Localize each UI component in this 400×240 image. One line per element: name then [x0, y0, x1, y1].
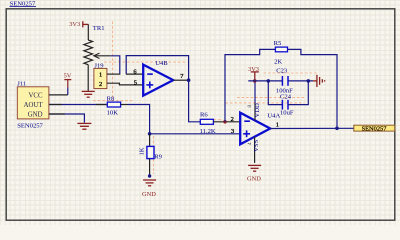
trimmer TR1: [84, 25, 111, 65]
ground (TR1): [82, 91, 95, 97]
wire U4B pin6: [126, 73, 143, 75]
wire 3V3 rail: [248, 80, 282, 82]
svg-text:GND: GND: [247, 176, 261, 183]
wire AOUT to R8: [49, 104, 107, 106]
connector J19: [94, 62, 107, 88]
power port 3V3 (U4A): [248, 66, 259, 79]
junction rail right: [307, 79, 311, 83]
svg-text:VCC: VCC: [29, 92, 43, 99]
wire TR1 wiper to J19 pin1: [111, 56, 120, 74]
svg-text:TR1: TR1: [93, 25, 105, 32]
svg-text:GND: GND: [28, 111, 43, 118]
junction U4B output: [187, 78, 191, 82]
ground (capacitor rail, sideways): [313, 75, 325, 87]
wire U4B output to R6: [189, 80, 201, 122]
port SEN0257: [354, 125, 395, 132]
svg-text:GND: GND: [142, 191, 156, 198]
wire U4B feedback loop: [126, 56, 188, 81]
svg-text:U4A: U4A: [267, 112, 280, 119]
wire R8 to node: [121, 104, 128, 106]
svg-text:R6: R6: [200, 111, 208, 118]
svg-text:2: 2: [231, 116, 234, 123]
svg-text:R5: R5: [274, 40, 282, 47]
connector J11: [17, 81, 49, 130]
pin 4 VSS of U4A: [247, 137, 260, 163]
svg-text:U4B: U4B: [155, 60, 168, 67]
wire R9 to ground: [149, 159, 151, 176]
ground (R9): [142, 180, 156, 198]
wire J19 pin1 stub: [107, 73, 120, 75]
wire U4A feedback to R5: [225, 49, 275, 121]
svg-text:3: 3: [231, 128, 234, 135]
resistor R9: [139, 134, 163, 161]
wire 3V3 to TR1: [87, 24, 89, 40]
op-amp U4B: [133, 60, 184, 96]
capacitor C23: [276, 68, 293, 95]
junction node R8/R9/pin3: [148, 132, 152, 136]
svg-text:AOUT: AOUT: [24, 102, 44, 109]
wire VCC to 5V: [49, 94, 68, 96]
svg-text:1: 1: [99, 72, 102, 79]
svg-text:5V: 5V: [64, 73, 72, 80]
power port 3V3 (TR1): [69, 21, 88, 28]
capacitor C24: [268, 81, 308, 117]
svg-text:VSS: VSS: [253, 139, 260, 151]
orange blanket dashed lines: [93, 22, 317, 175]
svg-text:1K: 1K: [139, 147, 146, 155]
svg-text:6: 6: [133, 69, 136, 76]
svg-text:1: 1: [276, 122, 279, 129]
svg-text:C24: C24: [280, 93, 292, 100]
junction R9 ground: [148, 174, 151, 177]
svg-text:SEN0257: SEN0257: [17, 123, 43, 130]
wire 3V3 stem: [254, 79, 256, 81]
junction node U4A pin2: [223, 120, 227, 124]
svg-text:8: 8: [247, 105, 253, 108]
wire U4A pin3: [150, 133, 241, 135]
wire U4B pin7 output: [173, 79, 188, 81]
ground (J11): [77, 123, 91, 129]
svg-text:C23: C23: [276, 68, 288, 75]
wire R5 to output node: [288, 49, 338, 128]
junction 3V3/VDD: [253, 79, 257, 83]
svg-text:R9: R9: [154, 154, 162, 161]
power port 5V: [64, 73, 72, 88]
wire R6 to U4A pin2: [213, 121, 240, 123]
svg-text:10K: 10K: [107, 109, 119, 116]
resistor R6: [200, 111, 216, 134]
svg-text:VDD: VDD: [254, 103, 261, 118]
svg-text:2: 2: [99, 81, 102, 88]
svg-text:SEN0257: SEN0257: [362, 125, 388, 132]
resistor R5: [274, 40, 288, 66]
pin 8 VDD of U4A: [247, 81, 261, 121]
svg-text:2K: 2K: [274, 58, 282, 65]
svg-text:3V3: 3V3: [69, 21, 80, 28]
junction output node: [335, 127, 339, 131]
svg-text:10uF: 10uF: [280, 110, 294, 117]
net label SEN0257 top-left: [10, 1, 36, 8]
svg-text:R8: R8: [107, 95, 115, 102]
wire U4A pin1 output: [270, 127, 354, 129]
ground (U4A): [247, 165, 261, 182]
junction rail left: [267, 79, 271, 83]
resistor R8: [107, 95, 121, 116]
wire TR1 bottom to ground: [87, 65, 89, 92]
wire GND pin to ground: [49, 114, 85, 123]
wire J19 pin2 to U4B pin5: [107, 83, 143, 85]
op-amp U4A: [231, 112, 281, 144]
svg-text:5: 5: [134, 80, 137, 87]
